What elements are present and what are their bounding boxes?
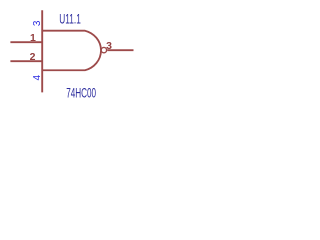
wire input pin 1	[10, 41, 42, 43]
wire vertical (net through gate left edge, pins 3/4)	[41, 10, 43, 92]
svg-text:3: 3	[32, 20, 43, 26]
inversion bubble	[101, 47, 106, 52]
svg-text:4: 4	[32, 74, 43, 80]
NAND gate U11.1 (74HC00) body	[42, 31, 101, 71]
svg-text:U11.1: U11.1	[59, 12, 81, 27]
svg-text:2: 2	[30, 51, 36, 63]
svg-text:1: 1	[30, 32, 36, 44]
background	[0, 0, 144, 107]
svg-text:74HC00: 74HC00	[66, 85, 96, 100]
wire output pin 3	[107, 49, 133, 51]
svg-text:3: 3	[106, 40, 112, 52]
wire input pin 2	[10, 60, 42, 62]
